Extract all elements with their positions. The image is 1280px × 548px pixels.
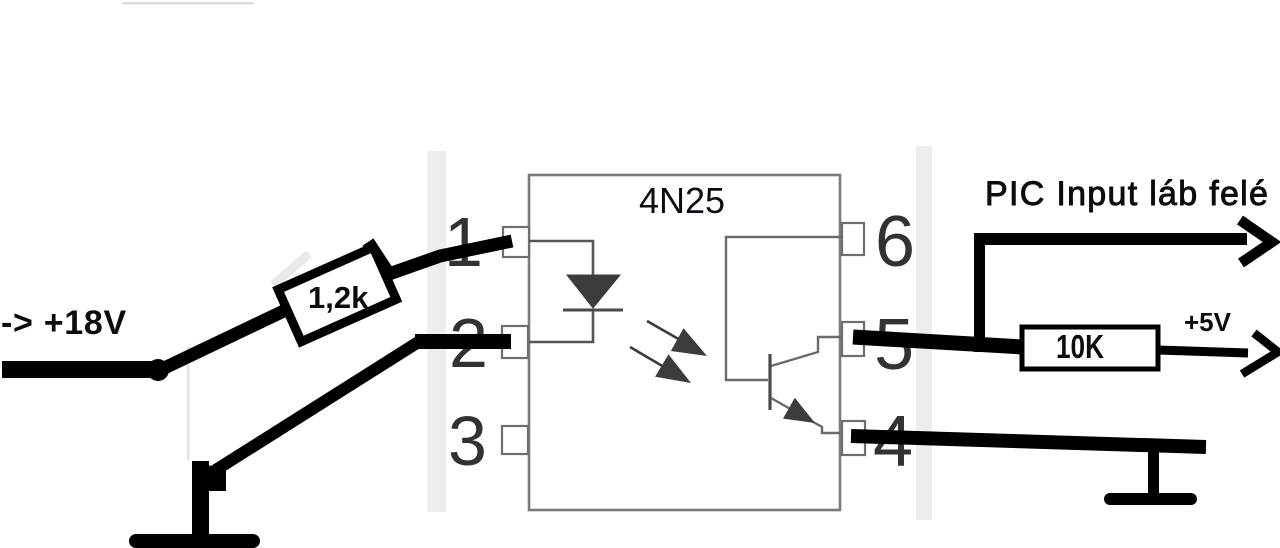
pin 1 box bbox=[503, 227, 529, 257]
PIC arrowhead chevron bbox=[1240, 220, 1272, 263]
pin 3 box bbox=[502, 426, 528, 454]
phototransistor Q1 collector wire bbox=[726, 237, 842, 380]
LED D1 anode wire bbox=[529, 241, 593, 276]
ground G1 stem bbox=[192, 461, 209, 543]
svg-text:PIC Input láb felé: PIC Input láb felé bbox=[985, 175, 1269, 213]
svg-text:+5V: +5V bbox=[1184, 307, 1232, 337]
svg-text:3: 3 bbox=[448, 402, 487, 480]
wire resistor R2 output bbox=[1158, 350, 1248, 353]
pin 2 box bbox=[502, 326, 528, 358]
output arrowhead chevron bbox=[1242, 333, 1278, 374]
svg-text:4N25: 4N25 bbox=[639, 180, 725, 221]
faint right vertical band bbox=[916, 146, 932, 520]
LED D1 cathode bar bbox=[563, 309, 623, 312]
ground G2 stem bbox=[1148, 444, 1159, 500]
wire pin 2 diagonal to ground bbox=[211, 341, 420, 473]
wire pin 5 to resistor bbox=[853, 337, 1023, 347]
IC body U1 4N25 bbox=[529, 175, 840, 510]
light arrow 1 bbox=[647, 321, 707, 356]
phototransistor Q1 base bar bbox=[768, 354, 771, 410]
pin 5 box bbox=[842, 322, 864, 356]
light arrow 2 bbox=[630, 347, 691, 383]
wire arrowhead blob at ground bbox=[208, 465, 226, 491]
ground G1 bar bbox=[136, 534, 253, 548]
svg-text:1,2k: 1,2k bbox=[308, 280, 369, 315]
svg-text:-> +18V: -> +18V bbox=[1, 304, 127, 342]
phototransistor Q1 collector arm bbox=[771, 337, 842, 366]
wire diagonal to resistor bbox=[158, 308, 290, 371]
wire +18V horizontal bbox=[2, 361, 160, 378]
faint top artifact line bbox=[122, 2, 254, 5]
wire PIC horizontal bbox=[977, 233, 1247, 245]
LED D1 triangle bbox=[567, 275, 620, 308]
phototransistor Q1 emitter arm with arrow bbox=[771, 398, 840, 433]
svg-text:10K: 10K bbox=[1056, 328, 1104, 365]
wire junction blob bbox=[147, 359, 169, 381]
faint vertical guide line near ground bbox=[187, 347, 190, 460]
pin 4 box bbox=[842, 421, 865, 455]
svg-text:6: 6 bbox=[875, 202, 915, 282]
resistor R2 10K body bbox=[1022, 327, 1158, 369]
LED D1 cathode wire bbox=[529, 311, 593, 342]
wire pin 2 horizontal bbox=[415, 334, 511, 349]
resistor R1 1,2k body bbox=[278, 247, 396, 341]
faint diagonal smudge above resistor bbox=[273, 254, 309, 285]
wire resistor to pin 1 with dip bbox=[368, 241, 512, 274]
pin 6 box bbox=[842, 223, 864, 255]
wire pin 4 to ground bbox=[851, 436, 1206, 447]
faint left vertical band bbox=[427, 151, 446, 512]
wire PIC vertical bbox=[974, 233, 985, 352]
ground G2 bar bbox=[1110, 493, 1191, 505]
